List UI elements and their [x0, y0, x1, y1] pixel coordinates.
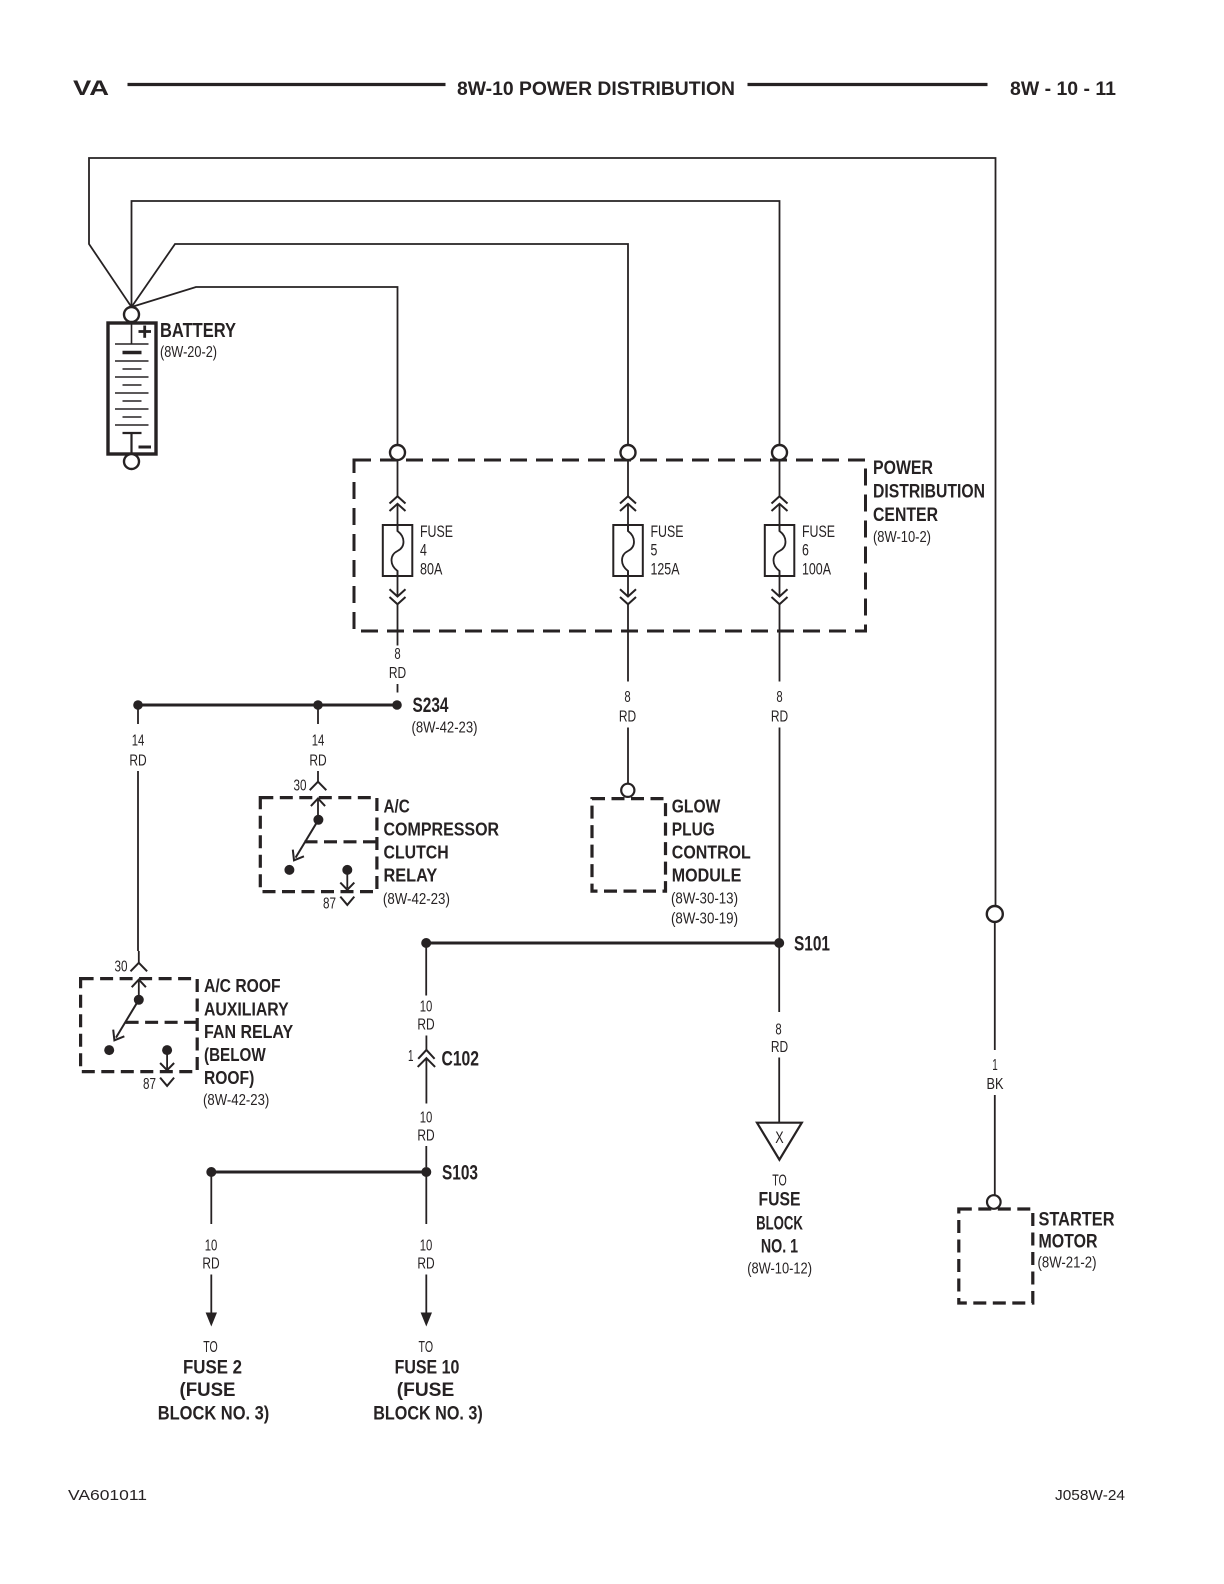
svg-text:10: 10 [205, 1238, 218, 1255]
svg-text:POWER: POWER [873, 458, 933, 479]
roof fan relay pin 30 arrow [132, 980, 146, 999]
header rule left [128, 83, 446, 86]
label GLOW PLUG CONTROL MODULE (8W-30-13) (8W-30-19) [671, 796, 751, 928]
svg-text:AUXILIARY: AUXILIARY [204, 999, 289, 1020]
svg-text:(FUSE: (FUSE [397, 1380, 455, 1401]
svg-text:PLUG: PLUG [672, 819, 715, 840]
svg-text:8W - 10 - 11: 8W - 10 - 11 [1010, 79, 1116, 100]
svg-text:RD: RD [309, 753, 326, 770]
label FUSE 4 80A [420, 522, 453, 579]
svg-text:RD: RD [417, 1256, 434, 1273]
wire battery positive to PDC fuse 4 [132, 287, 398, 445]
wire fuse 5 column inside PDC [627, 460, 629, 631]
node S103 left junction [206, 1167, 216, 1177]
svg-text:8: 8 [776, 689, 782, 706]
pin label 1 (C102) [408, 1048, 414, 1065]
wire to fuse 10 arrow [421, 1275, 432, 1327]
label STARTER MOTOR (8W-21-2) [1038, 1209, 1115, 1272]
connector at PDC fuse 5 input [621, 445, 636, 460]
battery minus sign [139, 446, 152, 449]
roof fan relay pin 87 arrow [160, 1054, 174, 1070]
roof fan relay pin 87 node [162, 1045, 172, 1055]
svg-text:(8W-30-13): (8W-30-13) [671, 891, 738, 908]
wire label 10 RD (to fuse 2) [202, 1238, 219, 1273]
relay A/C compressor clutch relay dashed box [260, 798, 377, 892]
svg-text:10: 10 [420, 1110, 433, 1127]
svg-text:S101: S101 [794, 933, 830, 956]
page title 8W-10 POWER DISTRIBUTION [457, 79, 735, 100]
wire segment above S234 [397, 684, 399, 693]
svg-text:X: X [775, 1128, 783, 1147]
label (8W-20-2) [160, 344, 217, 361]
svg-text:FAN RELAY: FAN RELAY [204, 1021, 294, 1042]
svg-text:FUSE 2: FUSE 2 [183, 1358, 242, 1379]
svg-text:J058W-24: J058W-24 [1055, 1487, 1125, 1504]
svg-text:1: 1 [408, 1048, 414, 1065]
wire label 1 BK (starter feed) [987, 1057, 1004, 1093]
wire label 8 RD (fuse 4 output) [389, 646, 406, 682]
battery positive plate stub [131, 324, 133, 344]
svg-text:FUSE: FUSE [420, 522, 453, 541]
compressor clutch relay pin 87 arrow [340, 874, 354, 890]
fuse F4 element [383, 525, 413, 576]
svg-text:(8W-20-2): (8W-20-2) [160, 344, 217, 361]
page number 8W - 10 - 11 [1010, 79, 1116, 100]
svg-text:RD: RD [202, 1256, 219, 1273]
svg-text:(BELOW: (BELOW [204, 1044, 266, 1065]
label S234 (8W-42-23) [412, 694, 478, 737]
connector C102 chevrons [418, 1050, 435, 1067]
svg-text:NO. 1: NO. 1 [761, 1237, 799, 1258]
label TO FUSE 10 (FUSE BLOCK NO. 3) [373, 1339, 483, 1425]
label BATTERY [160, 320, 237, 342]
svg-text:(8W-30-19): (8W-30-19) [671, 911, 738, 928]
fuse 5 input terminal chevrons [620, 496, 636, 511]
fuse 6 input terminal chevrons [772, 496, 788, 511]
svg-text:RD: RD [417, 1128, 434, 1145]
svg-text:(8W-21-2): (8W-21-2) [1038, 1255, 1097, 1272]
fuse 4 output terminal chevrons [390, 589, 406, 604]
wire label 8 RD (fuse 5 output) [619, 689, 636, 726]
svg-text:125A: 125A [651, 560, 680, 579]
pin 87 terminal chevron (roof fan relay) [160, 1078, 174, 1086]
svg-text:GLOW: GLOW [672, 796, 721, 817]
wire S234 to A/C roof auxiliary fan relay [137, 771, 139, 951]
fuse F5 element [613, 525, 643, 576]
wire S103 left branch stub [210, 1177, 212, 1225]
pin label 87 (compressor clutch relay) [323, 896, 336, 913]
pin 30 terminal chevron (A/C compressor clutch relay) [310, 771, 327, 790]
wire C102 down [425, 1058, 427, 1103]
svg-text:1: 1 [992, 1057, 998, 1074]
wire to fuse 2 arrow [206, 1275, 217, 1327]
label S103 [442, 1162, 478, 1185]
footer sheet number VA601011 [68, 1487, 147, 1504]
svg-text:A/C: A/C [384, 796, 410, 817]
battery negative plate stub [123, 433, 142, 453]
svg-text:100A: 100A [802, 560, 831, 579]
label FUSE 6 100A [802, 522, 835, 579]
wire fuse 5 output to glow plug control module [627, 631, 629, 682]
svg-text:6: 6 [802, 541, 809, 560]
svg-text:TO: TO [203, 1339, 218, 1356]
header rule right [748, 83, 988, 86]
svg-text:ROOF): ROOF) [204, 1067, 254, 1088]
pin label 87 (roof fan relay) [143, 1076, 156, 1093]
svg-text:BLOCK: BLOCK [756, 1213, 803, 1234]
compressor clutch relay pin 30 arrow [311, 799, 325, 819]
svg-text:BLOCK NO. 3): BLOCK NO. 3) [373, 1404, 483, 1425]
svg-text:FUSE: FUSE [802, 522, 835, 541]
svg-text:BLOCK NO. 3): BLOCK NO. 3) [158, 1404, 270, 1425]
svg-text:TO: TO [419, 1339, 434, 1356]
svg-text:BK: BK [987, 1076, 1004, 1093]
label TO FUSE BLOCK NO. 1 (8W-10-12) [747, 1173, 812, 1278]
svg-text:S234: S234 [413, 694, 449, 717]
svg-text:(FUSE: (FUSE [180, 1380, 236, 1401]
svg-text:CLUTCH: CLUTCH [384, 842, 449, 863]
svg-text:RD: RD [129, 753, 146, 770]
svg-text:80A: 80A [420, 560, 443, 579]
module glow plug control module dashed box [592, 799, 666, 892]
connector at starter motor [987, 1195, 1001, 1209]
label FUSE 5 125A [651, 522, 684, 579]
wire to starter motor [994, 1095, 996, 1195]
wire label 14 RD (middle branch) [309, 733, 326, 770]
label A/C ROOF AUXILIARY FAN RELAY (BELOW ROOF) (8W-42-23) [203, 975, 294, 1109]
svg-text:RD: RD [771, 709, 788, 726]
wire fuse 4 column inside PDC [397, 460, 399, 631]
label TO FUSE 2 (FUSE BLOCK NO. 3) [158, 1339, 270, 1425]
wire S103 right branch stub [425, 1177, 427, 1225]
label S101 [794, 933, 830, 956]
page header left label VA [73, 76, 109, 100]
node S101 left junction [421, 938, 431, 948]
svg-text:DISTRIBUTION: DISTRIBUTION [873, 482, 985, 503]
roof fan relay normally-open contact node [104, 1045, 114, 1055]
splice S101 bus [426, 942, 779, 945]
svg-text:COMPRESSOR: COMPRESSOR [384, 819, 500, 840]
svg-text:RD: RD [417, 1017, 434, 1034]
wire into glow plug control module [627, 728, 629, 784]
svg-text:30: 30 [294, 778, 307, 795]
fuse 6 output terminal chevrons [772, 589, 788, 604]
svg-text:STARTER: STARTER [1039, 1209, 1115, 1231]
svg-text:FUSE: FUSE [651, 522, 684, 541]
node S101 right junction [774, 938, 784, 948]
splice S234 bus [138, 704, 397, 707]
svg-text:RD: RD [619, 709, 636, 726]
fuse 4 input terminal chevrons [390, 496, 406, 511]
battery positive terminal connector [124, 307, 139, 322]
svg-text:BATTERY: BATTERY [160, 320, 237, 342]
node S103 right junction [421, 1167, 431, 1177]
battery B1 outline [108, 323, 156, 454]
connector at glow plug control module [621, 784, 634, 797]
wire segment above S103 [425, 1146, 427, 1167]
svg-text:10: 10 [420, 999, 433, 1016]
relay A/C roof auxiliary fan relay dashed box [81, 979, 198, 1072]
svg-text:RELAY: RELAY [384, 864, 438, 885]
wire label 10 RD (C102 to S103) [417, 1110, 434, 1145]
svg-text:5: 5 [651, 541, 658, 560]
wire starter feed below connector [994, 922, 996, 1050]
pin 30 terminal chevron (roof fan relay) [131, 951, 148, 971]
svg-text:10: 10 [420, 1238, 433, 1255]
compressor clutch relay normally-open contact node [284, 865, 294, 875]
pin label 30 (roof fan relay) [115, 959, 128, 976]
pin label 30 (compressor clutch relay) [294, 778, 307, 795]
svg-text:VA: VA [73, 76, 109, 100]
svg-text:(8W-42-23): (8W-42-23) [412, 720, 478, 737]
wire label 8 RD (S101 to fuse block no. 1) [771, 1022, 788, 1057]
label POWER DISTRIBUTION CENTER (8W-10-2) [873, 458, 985, 546]
roof fan relay common contact node [134, 995, 144, 1005]
wire S234 middle branch stub [317, 710, 319, 725]
svg-text:CENTER: CENTER [873, 505, 938, 526]
svg-text:MOTOR: MOTOR [1039, 1231, 1098, 1253]
svg-text:8: 8 [775, 1022, 781, 1039]
wire into off-page triangle [778, 1058, 780, 1123]
wire S234 left branch stub [137, 710, 139, 725]
fuse F6 element [765, 525, 795, 576]
compressor clutch relay common contact node [313, 815, 323, 825]
splice S103 bus [211, 1171, 426, 1174]
svg-text:A/C ROOF: A/C ROOF [204, 975, 281, 996]
svg-text:TO: TO [772, 1173, 787, 1190]
battery cell plates [115, 344, 149, 425]
wire battery positive to starter motor column (top feed) [89, 158, 996, 906]
svg-text:87: 87 [323, 896, 336, 913]
wire battery positive to PDC fuse 6 [132, 201, 780, 445]
label C102 [442, 1048, 480, 1071]
svg-text:30: 30 [115, 959, 128, 976]
power distribution center dashed box [354, 460, 866, 631]
svg-text:14: 14 [132, 733, 145, 750]
wire label 14 RD (left branch) [129, 733, 146, 770]
wire S101 left branch down [425, 948, 427, 996]
svg-text:87: 87 [143, 1076, 156, 1093]
wire fuse 6 column inside PDC [779, 460, 781, 631]
battery plus sign [139, 326, 152, 338]
off-page connector triangle X [757, 1123, 802, 1160]
label A/C COMPRESSOR CLUTCH RELAY (8W-42-23) [383, 796, 499, 909]
svg-text:FUSE 10: FUSE 10 [395, 1358, 460, 1379]
svg-text:RD: RD [771, 1039, 788, 1056]
compressor clutch relay pin 87 node [342, 865, 352, 875]
wire into connector C102 [425, 1036, 427, 1050]
wire label 10 RD (S101 to C102) [417, 999, 434, 1034]
wire fuse 6 to splice S101 [779, 728, 781, 939]
wire label 8 RD (fuse 6 output) [771, 689, 788, 726]
node S234 right junction [392, 700, 402, 710]
svg-text:C102: C102 [442, 1048, 480, 1071]
in-line connector on starter feed [987, 906, 1003, 922]
svg-text:CONTROL: CONTROL [672, 842, 751, 863]
svg-text:(8W-10-2): (8W-10-2) [873, 529, 931, 546]
wire label 10 RD (to fuse 10) [417, 1238, 434, 1273]
connector at PDC fuse 4 input [390, 445, 405, 460]
roof fan relay switch arm [109, 1000, 139, 1044]
fuse 5 output terminal chevrons [620, 589, 636, 604]
starter motor dashed box [959, 1209, 1033, 1303]
wire fuse 6 output down [779, 631, 781, 682]
svg-text:(8W-42-23): (8W-42-23) [203, 1092, 269, 1109]
svg-text:FUSE: FUSE [759, 1190, 801, 1211]
compressor clutch relay switch arm [288, 820, 318, 864]
svg-text:14: 14 [312, 733, 325, 750]
svg-text:(8W-42-23): (8W-42-23) [383, 891, 450, 908]
wire battery positive to PDC fuse 5 [132, 244, 629, 445]
node S234 left junction [133, 700, 143, 710]
connector at PDC fuse 6 input [772, 445, 787, 460]
svg-text:4: 4 [420, 541, 427, 560]
footer plate number J058W-24 [1055, 1487, 1125, 1504]
svg-text:VA601011: VA601011 [68, 1487, 147, 1504]
svg-text:8W-10 POWER DISTRIBUTION: 8W-10 POWER DISTRIBUTION [457, 79, 735, 100]
wire fuse 4 output to splice S234 [397, 631, 399, 646]
wire S101 down to fuse block no. 1 [778, 948, 780, 1013]
svg-text:S103: S103 [442, 1162, 478, 1185]
svg-text:8: 8 [624, 689, 630, 706]
svg-text:(8W-10-12): (8W-10-12) [747, 1261, 812, 1278]
pin 87 terminal chevron (compressor clutch relay) [340, 897, 354, 905]
node S234 middle junction [313, 700, 323, 710]
svg-text:MODULE: MODULE [672, 864, 742, 885]
battery negative terminal connector [124, 454, 139, 469]
svg-text:8: 8 [394, 646, 400, 663]
svg-text:RD: RD [389, 665, 406, 682]
